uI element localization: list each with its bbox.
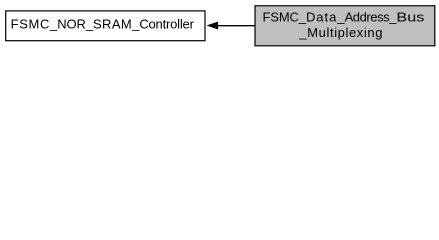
svg-text:Bus: Bus	[396, 9, 425, 24]
node FSMC_Data_Address_Bus_Multiplexing	[255, 6, 435, 46]
svg-text:FSMC_: FSMC_	[11, 17, 58, 32]
node FSMC_NOR_SRAM_Controller	[6, 11, 205, 41]
wire edge shaft	[217, 25, 256, 27]
background	[0, 0, 439, 52]
svg-text:SRAM_: SRAM_	[93, 17, 140, 32]
svg-text:NOR_: NOR_	[57, 17, 94, 32]
arrowhead pointing left	[207, 22, 219, 30]
svg-text:Controller: Controller	[139, 17, 194, 32]
svg-text:FSMC_: FSMC_	[263, 9, 307, 24]
svg-text:_Multiplexing: _Multiplexing	[298, 25, 382, 40]
svg-text:Data_: Data_	[306, 9, 345, 24]
svg-text:Address_: Address_	[345, 9, 398, 24]
